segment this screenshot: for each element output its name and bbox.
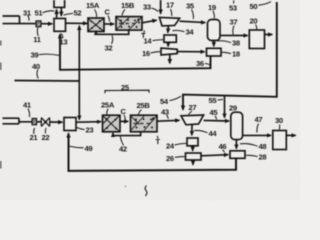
wire 25B to funnel 27 (stream 43): [157, 119, 179, 122]
T sensor (top): [141, 31, 146, 40]
box 28: [230, 151, 245, 159]
label 29: [229, 103, 237, 112]
box 14: [164, 35, 176, 42]
stream 33 vertical into funnel 17: [160, 0, 162, 14]
label C (top): [105, 8, 111, 17]
funnel 16 discharge arrow: [169, 55, 171, 63]
label 35: [186, 1, 195, 10]
top feed inlet fork: [3, 16, 37, 24]
label 50: [250, 2, 258, 11]
riser 40 vertical lower (down arrow into bottom line): [78, 81, 80, 120]
line 40 horizontal: [15, 80, 80, 83]
funnel 16: [161, 48, 177, 55]
label 28: [259, 153, 267, 162]
label 22: [42, 133, 50, 142]
paper grain overlay: [0, 0, 1, 1]
label 52: [74, 9, 82, 18]
label 15A: [86, 1, 100, 10]
label 44: [209, 129, 218, 138]
recycle loop 49 (box 28 back to box 23): [69, 133, 237, 171]
label 53: [229, 3, 237, 12]
stray dot: [125, 186, 126, 187]
box 20: [249, 30, 264, 49]
reactor 15A: [88, 18, 104, 32]
recycle loop 42: [113, 132, 141, 136]
box 29: [231, 112, 243, 139]
label 14: [144, 37, 153, 46]
label 19: [208, 3, 216, 12]
label 31: [23, 8, 32, 17]
wire 26 to 28 (stream 46): [201, 155, 228, 156]
label 32: [105, 43, 113, 52]
arrow 34: funnel 17 to box 14: [167, 26, 170, 32]
funnel 17: [159, 17, 179, 26]
recycle line 36 (box 18 back to box 13): [60, 34, 211, 70]
label 46: [219, 142, 227, 151]
arrow 25A to 25B: [120, 120, 128, 122]
wire 15B to funnel 17: [142, 20, 157, 23]
wire 29 to 30 (stream 47): [243, 134, 271, 136]
label 37: [230, 17, 238, 26]
bracket 25: [105, 90, 149, 93]
wire 37: box 19 to box 20: [220, 34, 248, 36]
label 47: [255, 115, 263, 124]
label 23: [86, 126, 94, 135]
funnel 27: [181, 115, 204, 125]
label 34: [186, 28, 195, 37]
arrow 15A to 15B: [104, 23, 114, 25]
arrow 48: box 29 to box 28: [235, 140, 237, 149]
box 13: [54, 19, 66, 32]
riser 40 vertical (up arrow into line): [78, 26, 80, 81]
label 18: [232, 50, 240, 59]
wire funnel 16 to box 18: [177, 51, 204, 53]
wire 22 to box 23: [50, 121, 63, 123]
label 33: [143, 2, 151, 11]
arrow 52 down: [60, 8, 62, 16]
label 45: [210, 108, 219, 117]
wire 13 to 15A with junction arrow: [66, 22, 88, 24]
box 30 outlet arrow: [286, 134, 295, 136]
edge artifact marks: [0, 41, 2, 169]
label 25B: [137, 101, 151, 110]
arrow box 14 to funnel 16: [167, 42, 169, 46]
reactor 25B: [131, 115, 158, 132]
label 13: [60, 38, 68, 47]
label 30: [275, 116, 283, 125]
valve 21 (hatched): [32, 118, 37, 124]
box 19: [208, 20, 221, 41]
box 26 discharge arrow: [192, 160, 194, 165]
label 25: [121, 83, 130, 92]
junction 55 drop into 27-29 line: [224, 96, 226, 118]
arrow 44: funnel 27 to box 24: [191, 125, 193, 135]
label 43: [161, 107, 169, 116]
label 26: [166, 154, 174, 163]
valve 11: [36, 21, 41, 27]
label 11: [33, 35, 42, 44]
label 36: [196, 59, 204, 68]
box 23: [64, 118, 76, 131]
label 15B: [121, 1, 135, 10]
box 52 (top, cut by edge): [54, 0, 65, 7]
label 49: [85, 144, 93, 153]
label 17: [166, 1, 174, 10]
wire feed to box 13: [41, 23, 52, 25]
label 39: [31, 50, 39, 59]
wire 27 to 29 (stream 45): [204, 119, 229, 122]
label 25A: [101, 100, 115, 109]
label 27: [189, 103, 197, 112]
label 55: [209, 96, 218, 105]
box 18: [207, 48, 222, 56]
label 51: [35, 8, 44, 17]
recycle loop 32: [96, 30, 129, 34]
wire 17 to 19 (stream 35): [180, 21, 206, 22]
wire 21-22: [37, 121, 41, 123]
label 21: [30, 133, 39, 142]
label 54: [160, 97, 169, 106]
wire 23 to 25A: [76, 121, 101, 124]
valve 22 (bowtie): [41, 118, 49, 127]
box 20 outlet arrow: [265, 34, 273, 36]
arrow 38: box 19 to box 18: [213, 41, 215, 47]
label 16: [142, 49, 150, 58]
stray pen squiggle (scan artifact): [145, 186, 147, 197]
label 48: [259, 142, 267, 151]
label 20: [250, 17, 258, 26]
box 26: [186, 153, 202, 160]
label 42: [119, 144, 127, 153]
label 40: [32, 62, 40, 71]
box 30: [273, 131, 287, 150]
recycle downcomer 50 (right side big loop): [183, 2, 277, 110]
label 38: [232, 38, 240, 47]
bottom feed inlet fork: [3, 118, 32, 124]
T sensor (bottom): [156, 137, 161, 146]
label C (bottom): [121, 107, 127, 116]
label 41: [23, 101, 32, 110]
reactor 25A: [103, 115, 121, 132]
label 24: [166, 141, 175, 150]
reactor 15B: [116, 17, 142, 31]
arrow box 24 to box 26: [192, 146, 194, 151]
arrow 51 up: [56, 10, 58, 18]
box 24: [187, 138, 198, 146]
